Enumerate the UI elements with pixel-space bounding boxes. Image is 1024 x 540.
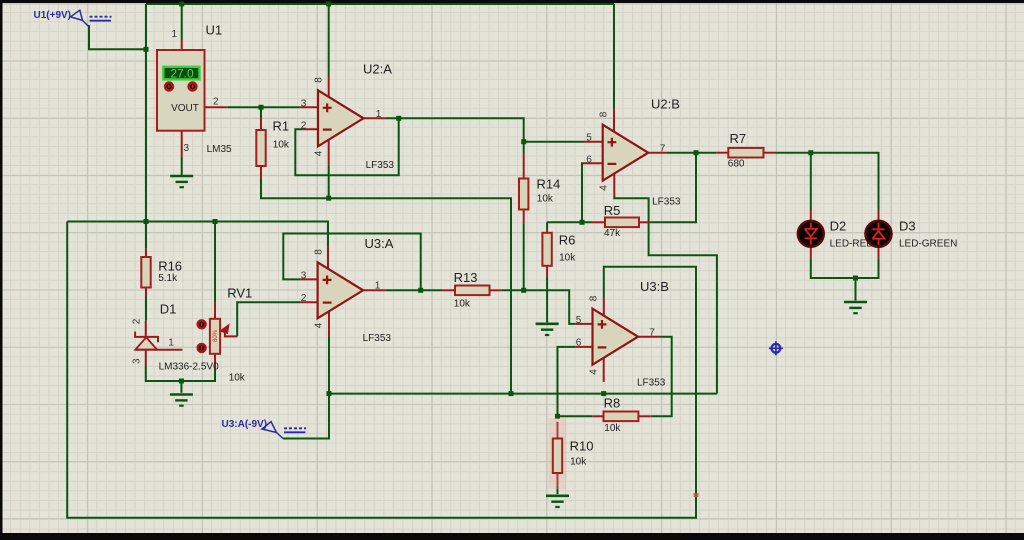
wire U1 ground stem bbox=[181, 157, 183, 175]
svg-text:6: 6 bbox=[576, 337, 582, 348]
junction at +9V terminal corner bbox=[144, 47, 149, 52]
svg-text:U3:B: U3:B bbox=[640, 279, 669, 294]
wire from +9V terminal bbox=[89, 25, 146, 49]
pin U1.1 bbox=[181, 40, 183, 51]
svg-text:4: 4 bbox=[314, 150, 325, 156]
wire R10 bottom to ground bbox=[557, 485, 559, 494]
pin U2:B.4 bbox=[613, 174, 615, 197]
wire R16 to D1 bbox=[145, 288, 147, 320]
junction LED ground node bbox=[853, 276, 858, 281]
svg-text:47k: 47k bbox=[604, 228, 621, 239]
black border bottom bbox=[0, 533, 1024, 540]
pin D2 top bbox=[810, 210, 812, 222]
pin U3:B.5 bbox=[575, 323, 593, 325]
svg-text:8: 8 bbox=[589, 295, 600, 301]
svg-text:U3:A: U3:A bbox=[365, 236, 394, 251]
op-amp U3:A bbox=[301, 249, 381, 329]
black border top bbox=[0, 0, 1024, 3]
svg-text:U2:B: U2:B bbox=[651, 97, 680, 112]
pin U3:A.2 bbox=[300, 301, 318, 303]
svg-text:R10: R10 bbox=[570, 439, 594, 454]
svg-text:R6: R6 bbox=[559, 232, 576, 247]
pin R14 top bbox=[523, 153, 525, 179]
svg-text:4: 4 bbox=[313, 322, 324, 328]
svg-text:680: 680 bbox=[728, 159, 745, 170]
svg-text:5.1k: 5.1k bbox=[158, 273, 178, 284]
wire R1 bottom to x511 vertical to -9V rail bbox=[261, 180, 511, 394]
pin U3:A.1 bbox=[362, 289, 386, 291]
wire R14 bottom drop bbox=[523, 223, 525, 290]
svg-text:U2:A: U2:A bbox=[363, 62, 392, 77]
svg-text:1: 1 bbox=[171, 29, 177, 40]
wire R14 top hang bbox=[523, 142, 525, 153]
potentiometer RV1 bbox=[196, 319, 237, 354]
svg-text:2: 2 bbox=[301, 120, 307, 131]
junction U3:B pin4 on -9V rail bbox=[601, 391, 606, 396]
LED D3 over label bbox=[866, 221, 892, 247]
svg-text:3: 3 bbox=[184, 143, 190, 154]
svg-text:10k: 10k bbox=[570, 456, 587, 467]
wire U3:B pin6 to R8 node bbox=[558, 347, 576, 416]
svg-text:2: 2 bbox=[132, 318, 143, 324]
wire R5 left node bbox=[547, 221, 592, 223]
svg-text:U3:A(-9V): U3:A(-9V) bbox=[222, 419, 268, 430]
svg-text:80%: 80% bbox=[213, 329, 219, 342]
svg-text:4: 4 bbox=[589, 369, 600, 375]
ground under R10 bbox=[546, 496, 569, 507]
junction U2:A output feedback bbox=[396, 116, 401, 121]
resistor R16 bbox=[141, 257, 150, 288]
svg-text:LED-GREEN: LED-GREEN bbox=[899, 238, 957, 249]
pin D3 bottom bbox=[878, 247, 880, 258]
junction R14 bottom node bbox=[521, 288, 526, 293]
junction +9V lower rail left vertical bbox=[144, 219, 149, 224]
wire D2 top drop bbox=[810, 153, 812, 210]
wire RV1 top drop bbox=[214, 222, 216, 303]
svg-text:8: 8 bbox=[314, 77, 325, 83]
wire U2:B pin8 drop bbox=[613, 4, 615, 109]
wire R8 left node bbox=[558, 415, 593, 417]
pin U2:A.3 bbox=[300, 106, 319, 108]
junction R5/R6/pin6 node bbox=[580, 220, 585, 225]
svg-text:3: 3 bbox=[132, 358, 143, 364]
LED D3 bbox=[866, 221, 892, 247]
ground under U1 bbox=[170, 176, 193, 187]
junction U2:A pin4 on rail bbox=[326, 196, 331, 201]
pin R1 bottom bbox=[260, 166, 262, 180]
pin R8 left bbox=[592, 415, 603, 417]
wire RV1 wiper to U3:A pin2 bbox=[237, 302, 300, 336]
svg-text:8: 8 bbox=[599, 111, 610, 117]
pin R14 bottom bbox=[523, 210, 525, 224]
resistor R10 highlight halo bbox=[549, 418, 567, 489]
svg-text:1: 1 bbox=[375, 281, 381, 292]
pin R16 top bbox=[145, 248, 147, 257]
wire -9V rail bbox=[329, 393, 717, 395]
svg-text:LM336-2.5V0: LM336-2.5V0 bbox=[159, 362, 219, 373]
wire R8 right to U3:B output bbox=[651, 337, 672, 417]
svg-text:LM35: LM35 bbox=[207, 144, 232, 155]
junction D2 branch bbox=[808, 150, 813, 155]
resistor R5 bbox=[605, 218, 639, 228]
svg-text:R8: R8 bbox=[604, 396, 621, 411]
pin R16 bottom bbox=[145, 288, 147, 297]
pin D2 bottom bbox=[810, 247, 812, 258]
wire U2:B output to R7 bbox=[668, 152, 717, 154]
pin U2:B.7 bbox=[648, 152, 668, 154]
wire -9V terminal feed bbox=[283, 394, 329, 439]
svg-text:LF353: LF353 bbox=[363, 333, 392, 344]
svg-text:1: 1 bbox=[168, 338, 174, 349]
pin RV1 top bbox=[214, 303, 216, 319]
svg-text:10k: 10k bbox=[559, 252, 576, 263]
pin D1.3 bbox=[145, 350, 147, 366]
wire R13 to U3:B pin5 bbox=[502, 290, 575, 324]
pin U1.2 bbox=[205, 106, 228, 108]
wire LED bottoms bbox=[811, 258, 879, 278]
pin RV1 bottom bbox=[214, 354, 216, 369]
resistor R7 bbox=[728, 148, 763, 158]
resistor R6 bbox=[542, 233, 551, 266]
pin R1 top bbox=[260, 118, 262, 130]
pin R13 right bbox=[490, 289, 502, 291]
pin R7 right bbox=[764, 152, 776, 154]
wire U2:B pin4 to -9V net bbox=[614, 197, 717, 394]
junction -9V rail left corner bbox=[327, 391, 332, 396]
junction U3:A output node bbox=[418, 288, 423, 293]
pin U3:A.4 bbox=[328, 312, 330, 337]
svg-text:2: 2 bbox=[213, 97, 219, 108]
pin U3:B.8 bbox=[603, 298, 605, 316]
resistor R13 bbox=[455, 286, 490, 296]
svg-text:2: 2 bbox=[301, 293, 307, 304]
pin D1.2 bbox=[145, 321, 147, 336]
op-amp U2:B bbox=[586, 111, 666, 191]
junction U2:B pin5 node bbox=[521, 139, 526, 144]
pin R13 left bbox=[442, 289, 456, 291]
resistor R8 bbox=[604, 412, 639, 422]
pin U2:A.4 bbox=[328, 140, 330, 165]
pin U2:A.2 bbox=[303, 128, 319, 130]
diode D1 LM336 bbox=[132, 318, 183, 364]
wire R5 right to U2:B output bbox=[651, 153, 697, 223]
wire U3:A output to R13 bbox=[386, 289, 442, 291]
pin R5 right bbox=[639, 221, 651, 223]
wire U2:A pin2 feedback loop bbox=[295, 118, 398, 175]
wire R6 bottom to ground bbox=[546, 277, 548, 323]
svg-text:10k: 10k bbox=[604, 423, 621, 434]
svg-text:1: 1 bbox=[376, 109, 382, 120]
pin U3:A.8 bbox=[327, 246, 329, 269]
svg-text:5: 5 bbox=[576, 315, 582, 326]
svg-text:10k: 10k bbox=[273, 139, 290, 150]
ground under LEDs bbox=[844, 302, 867, 313]
svg-text:LF353: LF353 bbox=[652, 196, 681, 207]
pin U1.3 bbox=[181, 131, 183, 157]
LED D2 bbox=[798, 221, 824, 247]
pin U2:B.5 bbox=[584, 141, 604, 143]
junction U2:B output node bbox=[694, 150, 699, 155]
svg-text:5: 5 bbox=[586, 133, 592, 144]
wire D1 ground stem bbox=[180, 381, 182, 393]
svg-text:U1(+9V): U1(+9V) bbox=[34, 10, 72, 21]
wire U1 pin1 drop bbox=[181, 4, 183, 40]
pin R10 bottom bbox=[557, 473, 559, 485]
wire U2:A output to U2:B pin5 and R14 bbox=[386, 118, 584, 141]
svg-text:D1: D1 bbox=[160, 302, 177, 317]
wire D1 pin3 to ground row bbox=[146, 366, 215, 382]
pin U3:B.6 bbox=[575, 346, 593, 348]
ground under D1 bbox=[170, 395, 193, 406]
pin D3 top bbox=[878, 210, 880, 222]
pin U2:A.1 bbox=[363, 117, 386, 119]
resistor R14 bbox=[519, 179, 528, 210]
svg-text:8: 8 bbox=[313, 249, 324, 255]
svg-text:VOUT: VOUT bbox=[171, 103, 199, 114]
svg-text:LF353: LF353 bbox=[366, 160, 395, 171]
junction D1 ground node bbox=[179, 379, 184, 384]
ground under R6 bbox=[536, 324, 559, 335]
power terminal U1(+9V) bbox=[71, 10, 112, 27]
wire LED ground stem bbox=[855, 278, 857, 301]
svg-text:7: 7 bbox=[660, 143, 666, 154]
wire +9V top rail bbox=[146, 3, 614, 5]
pin R6 top bbox=[546, 229, 548, 233]
svg-text:R16: R16 bbox=[158, 259, 182, 274]
wire U2:A pin8 drop bbox=[328, 4, 330, 76]
pin U3:B.4 bbox=[603, 358, 605, 382]
stray red tick bbox=[694, 493, 699, 497]
wire left +9V vertical bbox=[145, 4, 147, 223]
junction x511 on -9V rail bbox=[509, 391, 514, 396]
pin U2:B.6 bbox=[584, 162, 604, 164]
svg-text:3: 3 bbox=[301, 98, 307, 109]
svg-text:6: 6 bbox=[586, 154, 592, 165]
svg-text:U1: U1 bbox=[206, 23, 223, 38]
svg-text:4: 4 bbox=[599, 185, 610, 191]
pin U3:A.3 bbox=[300, 278, 318, 280]
wire R16 top hang bbox=[145, 222, 147, 249]
wire U3:A pin4 drop bbox=[328, 337, 330, 394]
op-amp U3:B bbox=[576, 295, 656, 375]
pin R6 bottom bbox=[546, 266, 548, 277]
junction top rail U2:A pin8 bbox=[326, 2, 331, 7]
junction RV1 top on +9V rail bbox=[213, 219, 218, 224]
svg-text:LF353: LF353 bbox=[637, 377, 666, 388]
wire U3:A pin3 feedback loop bbox=[283, 234, 420, 291]
pin R5 left bbox=[592, 221, 605, 223]
svg-text:D2: D2 bbox=[830, 218, 847, 233]
origin marker bbox=[769, 341, 783, 355]
op-amp U2:A bbox=[301, 77, 382, 157]
junction R8/R10/pin6 node bbox=[555, 414, 560, 419]
svg-text:R13: R13 bbox=[454, 270, 478, 285]
junction top rail U1 pin1 bbox=[179, 2, 184, 7]
wire +9V outer loop to U3:B pin8 bbox=[67, 222, 696, 518]
pin U3:B.7 bbox=[637, 336, 659, 338]
svg-text:10k: 10k bbox=[229, 372, 246, 383]
resistor R10 bbox=[553, 439, 562, 474]
svg-text:R5: R5 bbox=[604, 203, 621, 218]
pin R10 top bbox=[557, 422, 559, 439]
resistor R1 bbox=[256, 130, 265, 166]
svg-text:R14: R14 bbox=[537, 177, 561, 192]
junction VOUT node R1 bbox=[259, 105, 264, 110]
wire R1 top hang bbox=[260, 107, 262, 118]
pin U2:A.8 bbox=[328, 76, 330, 99]
svg-text:10k: 10k bbox=[537, 194, 554, 205]
pin R7 left bbox=[716, 152, 728, 154]
svg-text:D3: D3 bbox=[899, 218, 916, 233]
black border left bbox=[0, 0, 3, 540]
wire R7 to LEDs top bbox=[776, 153, 879, 210]
wire R6 top hang bbox=[546, 222, 548, 229]
wire +9V lower rail to U3:A pin8 bbox=[67, 222, 328, 247]
U1 LM35 body bbox=[157, 50, 205, 131]
svg-text:10k: 10k bbox=[454, 298, 471, 309]
svg-text:27.0: 27.0 bbox=[170, 67, 194, 81]
wire U2:B pin6 drop to R5 node bbox=[582, 163, 584, 222]
svg-text:R7: R7 bbox=[730, 131, 747, 146]
svg-text:R1: R1 bbox=[273, 119, 290, 134]
wire VOUT to U2:A pin3 bbox=[228, 106, 300, 108]
power terminal U3:A(-9V) bbox=[262, 422, 306, 439]
pin R8 right bbox=[638, 415, 650, 417]
svg-text:3: 3 bbox=[301, 270, 307, 281]
svg-text:RV1: RV1 bbox=[227, 286, 252, 301]
svg-text:7: 7 bbox=[649, 327, 655, 338]
pin U2:B.8 bbox=[613, 109, 615, 133]
wire U2:A pin4 drop bbox=[328, 165, 330, 198]
